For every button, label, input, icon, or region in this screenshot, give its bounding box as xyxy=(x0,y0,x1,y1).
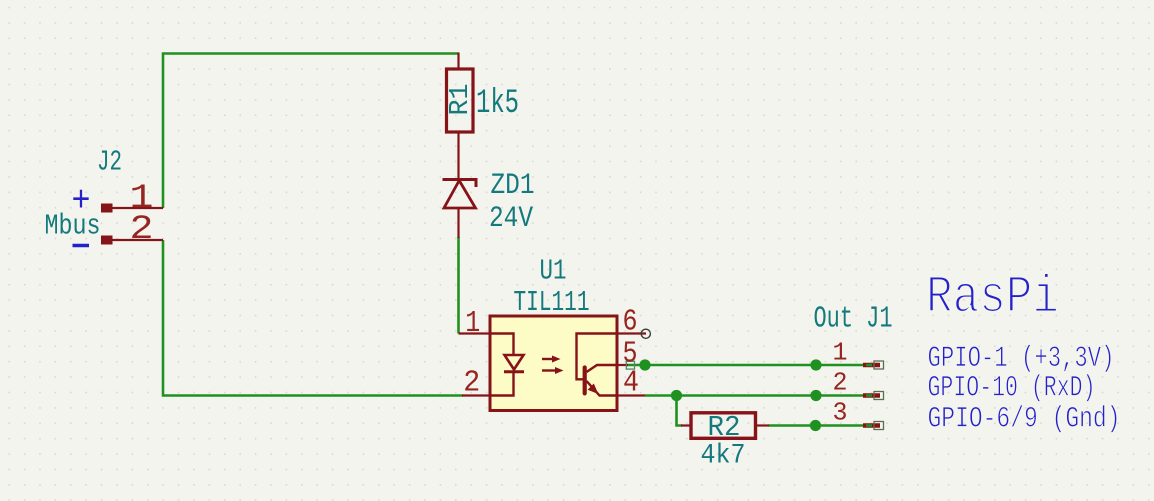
resistor R1 bottom lead xyxy=(457,132,459,179)
U1 light arrow 2 xyxy=(542,367,564,374)
junction J1 pin2 xyxy=(810,390,821,401)
U1 pin 5 line xyxy=(617,364,628,366)
svg-text:6: 6 xyxy=(623,306,638,340)
svg-text:J2: J2 xyxy=(97,146,122,179)
U1 transistor collector xyxy=(587,365,618,372)
U1 transistor base line from pin 6 xyxy=(577,334,618,380)
svg-text:24V: 24V xyxy=(489,202,533,236)
svg-text:GPIO-10 (RxD): GPIO-10 (RxD) xyxy=(928,372,1096,406)
U1 transistor emitter xyxy=(587,381,618,396)
svg-text:1: 1 xyxy=(465,307,480,341)
U1 internal LED cathode bar xyxy=(504,370,524,373)
svg-text:Out J1: Out J1 xyxy=(814,302,893,337)
connector J1 pin 2 xyxy=(863,392,884,400)
zener diode ZD1 bottom lead xyxy=(457,208,459,238)
svg-text:U1: U1 xyxy=(540,255,567,288)
junction pin5 xyxy=(639,359,650,370)
svg-text:ZD1: ZD1 xyxy=(491,169,535,203)
svg-text:RasPi: RasPi xyxy=(926,268,1059,328)
wire U1 pin4 to J1 pin2 xyxy=(645,394,870,397)
connector J1 pin 1 xyxy=(863,361,884,369)
U1 transistor emitter arrowhead xyxy=(588,384,599,395)
svg-text:1: 1 xyxy=(833,338,848,368)
resistor R1 body xyxy=(447,69,474,132)
junction J1 pin1 xyxy=(810,359,821,370)
connector J1 pin 3 xyxy=(863,422,884,430)
svg-text:GPIO-6/9 (Gnd): GPIO-6/9 (Gnd) xyxy=(928,403,1121,437)
svg-text:4k7: 4k7 xyxy=(701,441,746,472)
junction pin4 xyxy=(671,390,682,401)
svg-text:R2: R2 xyxy=(708,411,741,444)
U1 pin 6 open circle xyxy=(641,329,650,338)
wire junction pin4 down to R2 xyxy=(677,396,683,426)
svg-text:4: 4 xyxy=(623,367,639,401)
connector J2 pin 2 xyxy=(101,236,163,245)
zener diode ZD1 cathode bar xyxy=(443,180,477,188)
svg-text:2: 2 xyxy=(833,368,848,398)
wire R2 to J1 pin3 xyxy=(769,424,871,427)
U1 pin 6 line xyxy=(617,332,646,334)
svg-text:+: + xyxy=(72,181,91,222)
U1 internal LED bottom lead xyxy=(490,372,514,396)
resistor R2 body xyxy=(691,413,756,439)
U1 pin 2 line xyxy=(462,394,490,396)
junction R2 right xyxy=(810,420,821,431)
wire U1 pin5 to J1 pin1 xyxy=(627,364,870,367)
J2 pin name - xyxy=(73,244,90,248)
U1 pin 5 end square xyxy=(626,361,634,369)
op-to-coupler U1 body xyxy=(490,316,617,411)
svg-text:TIL111: TIL111 xyxy=(514,286,590,319)
U1 internal LED top lead xyxy=(490,334,514,356)
U1 light arrow 1 xyxy=(542,356,561,363)
U1 pin 1 line xyxy=(459,332,491,334)
svg-text:2: 2 xyxy=(463,367,480,401)
svg-text:2: 2 xyxy=(130,211,154,249)
U1 transistor base bar xyxy=(583,368,587,394)
wire ZD1 anode to U1 pin1 xyxy=(457,237,460,334)
wire J2 pin2 to U1 pin2 xyxy=(163,240,463,396)
zener diode ZD1 triangle xyxy=(444,181,476,209)
connector J2 pin 1 xyxy=(101,204,163,213)
resistor R1 top lead xyxy=(457,53,459,70)
svg-text:3: 3 xyxy=(833,398,848,428)
U1 internal LED triangle xyxy=(505,355,524,370)
svg-text:1k5: 1k5 xyxy=(476,85,519,123)
resistor R2 right lead xyxy=(756,424,770,426)
U1 pin 4 line xyxy=(617,394,645,396)
svg-text:R1: R1 xyxy=(446,84,476,116)
resistor R2 left lead xyxy=(681,424,691,426)
wire top loop from J2 pin1 to R1 xyxy=(163,54,459,209)
